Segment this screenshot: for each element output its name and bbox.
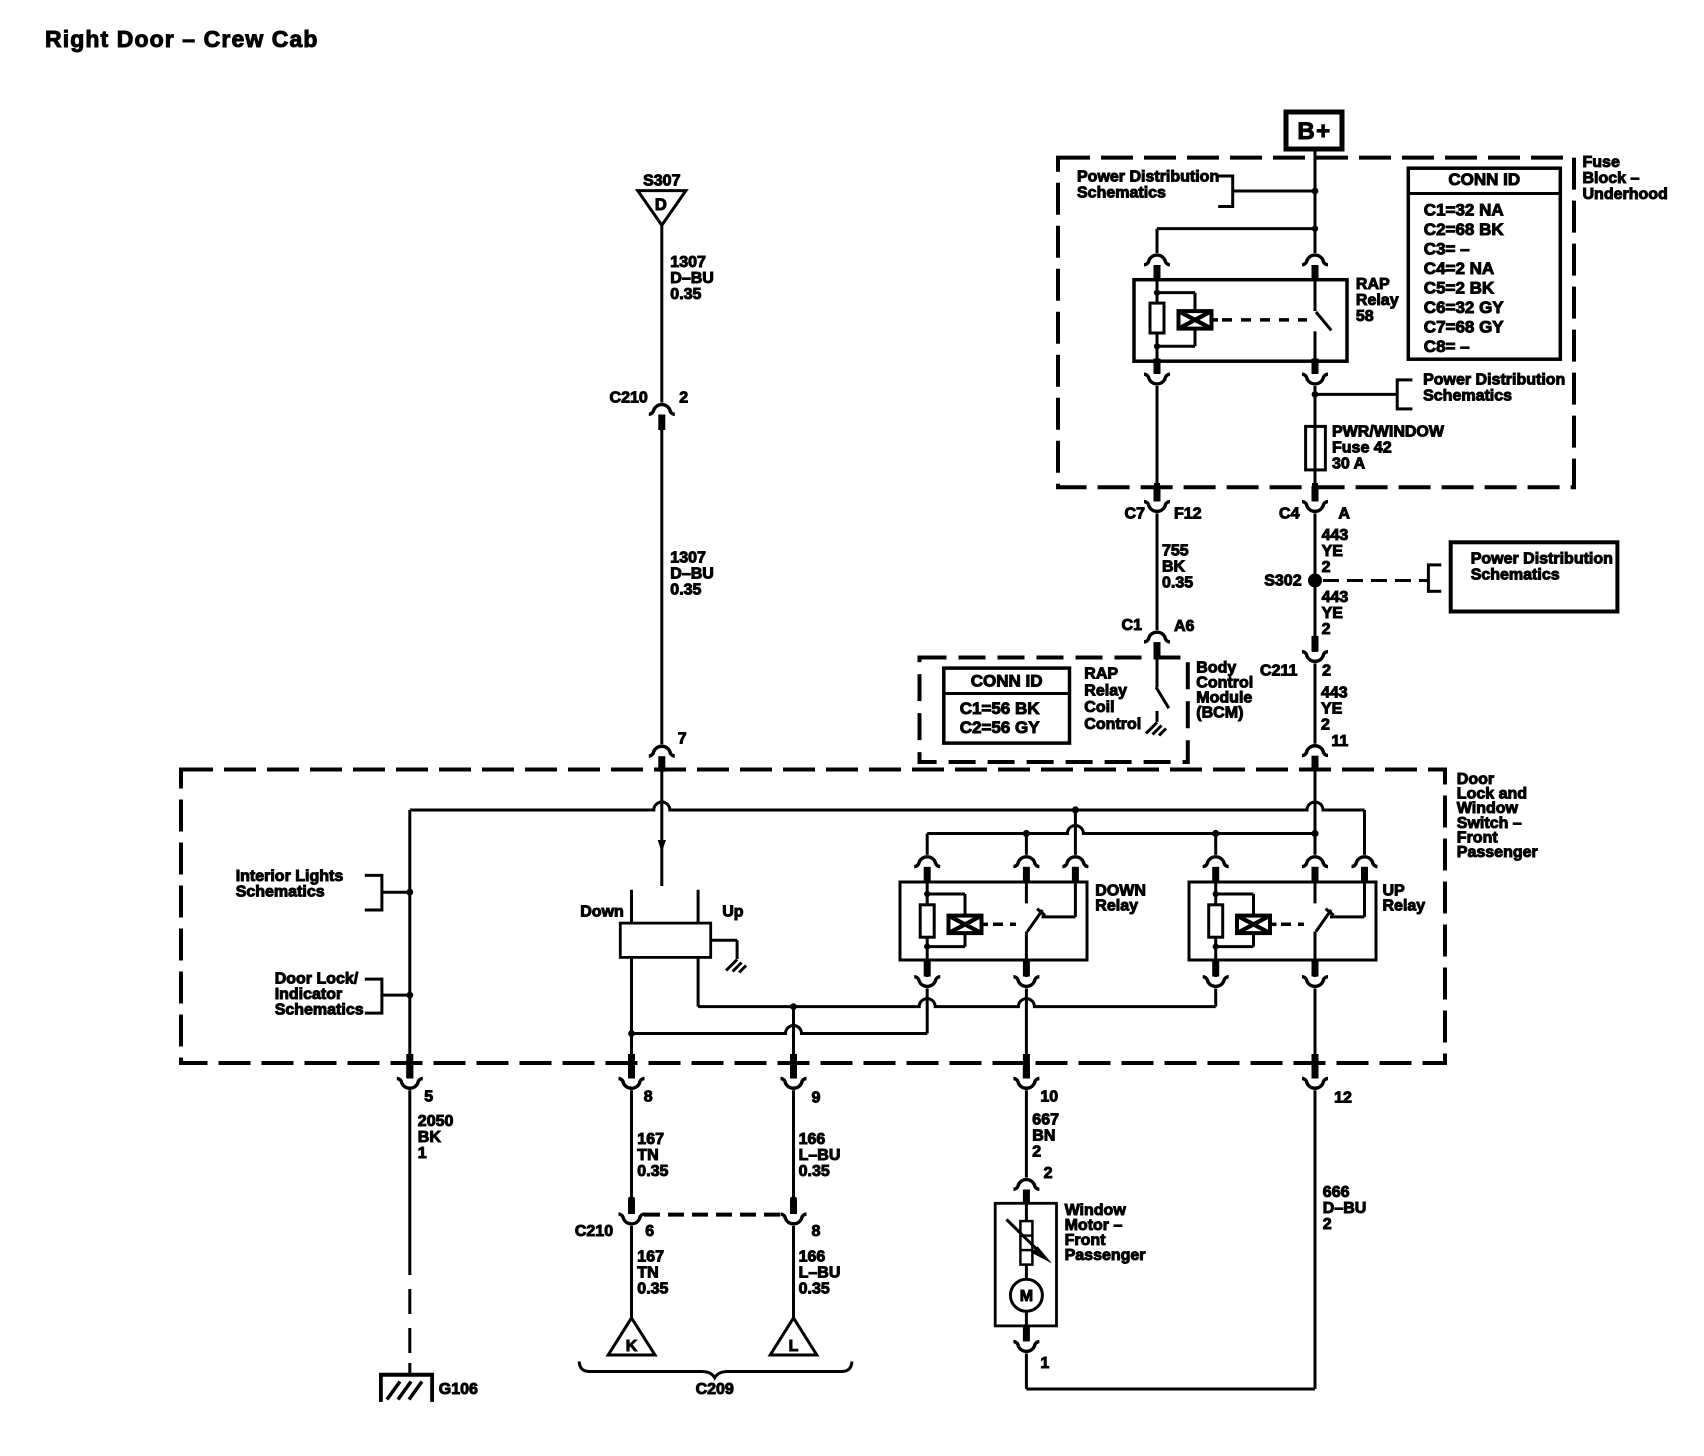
- svg-text:BN: BN: [1032, 1128, 1055, 1145]
- svg-text:TN: TN: [637, 1147, 658, 1164]
- svg-text:2: 2: [1322, 559, 1331, 576]
- svg-text:58: 58: [1356, 308, 1374, 325]
- svg-text:Fuse 42: Fuse 42: [1332, 440, 1392, 457]
- svg-text:C1=56 BK: C1=56 BK: [960, 699, 1041, 718]
- svg-text:1: 1: [418, 1145, 427, 1162]
- svg-text:0.35: 0.35: [799, 1281, 830, 1298]
- svg-text:166: 166: [799, 1131, 826, 1148]
- svg-text:2: 2: [1322, 621, 1331, 638]
- svg-text:Interior Lights: Interior Lights: [236, 868, 344, 885]
- svg-text:C7=68 GY: C7=68 GY: [1424, 318, 1505, 337]
- svg-text:1307: 1307: [670, 550, 706, 567]
- svg-text:D: D: [655, 196, 667, 214]
- svg-text:C209: C209: [696, 1381, 734, 1398]
- svg-text:Door Lock/: Door Lock/: [275, 971, 359, 988]
- svg-text:D–BU: D–BU: [670, 270, 714, 287]
- svg-text:6: 6: [645, 1223, 654, 1240]
- svg-text:Relay: Relay: [1356, 292, 1399, 309]
- svg-text:0.35: 0.35: [670, 286, 701, 303]
- svg-text:667: 667: [1032, 1112, 1059, 1129]
- svg-text:443: 443: [1321, 685, 1348, 702]
- svg-text:5: 5: [424, 1089, 433, 1106]
- svg-text:7: 7: [678, 730, 687, 747]
- svg-text:C211: C211: [1260, 663, 1297, 680]
- svg-text:YE: YE: [1322, 605, 1344, 622]
- svg-text:Schematics: Schematics: [275, 1002, 364, 1019]
- svg-text:C1: C1: [1122, 617, 1143, 634]
- svg-text:755: 755: [1162, 543, 1189, 560]
- svg-text:2: 2: [1032, 1144, 1041, 1161]
- svg-text:9: 9: [812, 1090, 821, 1107]
- svg-text:PWR/WINDOW: PWR/WINDOW: [1332, 424, 1445, 441]
- svg-text:2: 2: [679, 389, 688, 406]
- svg-text:Indicator: Indicator: [275, 986, 343, 1003]
- svg-text:Down: Down: [580, 903, 624, 920]
- svg-text:G106: G106: [439, 1381, 478, 1398]
- svg-text:0.35: 0.35: [637, 1281, 668, 1298]
- svg-text:0.35: 0.35: [1162, 575, 1193, 592]
- svg-text:A: A: [1338, 506, 1350, 523]
- svg-text:(BCM): (BCM): [1196, 704, 1243, 721]
- svg-text:167: 167: [637, 1249, 664, 1266]
- svg-text:Power Distribution: Power Distribution: [1471, 550, 1613, 567]
- svg-text:Schematics: Schematics: [1077, 185, 1166, 202]
- svg-text:Relay: Relay: [1095, 898, 1138, 915]
- svg-text:443: 443: [1322, 527, 1349, 544]
- svg-text:Schematics: Schematics: [1423, 388, 1512, 405]
- svg-text:L–BU: L–BU: [799, 1147, 841, 1164]
- svg-text:C210: C210: [610, 389, 648, 406]
- svg-text:Up: Up: [722, 903, 744, 920]
- svg-text:12: 12: [1334, 1090, 1352, 1107]
- svg-text:TN: TN: [637, 1265, 658, 1282]
- svg-text:C4: C4: [1279, 506, 1300, 523]
- svg-text:0.35: 0.35: [637, 1163, 668, 1180]
- svg-text:Relay: Relay: [1084, 682, 1127, 699]
- svg-text:YE: YE: [1322, 543, 1344, 560]
- svg-text:Schematics: Schematics: [1471, 566, 1560, 583]
- svg-text:C8= –: C8= –: [1424, 337, 1470, 356]
- svg-text:Power Distribution: Power Distribution: [1077, 169, 1219, 186]
- svg-text:2: 2: [1321, 717, 1330, 734]
- svg-text:S307: S307: [643, 173, 680, 190]
- svg-text:B+: B+: [1297, 118, 1331, 145]
- svg-text:S302: S302: [1264, 573, 1301, 590]
- svg-text:A6: A6: [1174, 618, 1195, 635]
- svg-text:RAP: RAP: [1084, 666, 1118, 683]
- svg-text:C7: C7: [1125, 506, 1146, 523]
- svg-text:C2=68 BK: C2=68 BK: [1424, 220, 1505, 239]
- svg-text:C2=56 GY: C2=56 GY: [960, 718, 1041, 737]
- svg-text:L–BU: L–BU: [799, 1265, 841, 1282]
- svg-text:Passenger: Passenger: [1065, 1247, 1146, 1264]
- svg-text:Power Distribution: Power Distribution: [1423, 372, 1565, 389]
- svg-text:666: 666: [1323, 1184, 1350, 1201]
- svg-text:167: 167: [637, 1131, 664, 1148]
- svg-text:2: 2: [1322, 663, 1331, 680]
- svg-text:C4=2 NA: C4=2 NA: [1424, 259, 1494, 278]
- svg-text:1: 1: [1040, 1355, 1049, 1372]
- svg-text:CONN ID: CONN ID: [1448, 170, 1520, 189]
- svg-text:RAP: RAP: [1356, 276, 1390, 293]
- svg-text:BK: BK: [418, 1129, 442, 1146]
- svg-text:8: 8: [644, 1089, 653, 1106]
- svg-text:2: 2: [1323, 1216, 1332, 1233]
- svg-text:BK: BK: [1162, 559, 1186, 576]
- svg-text:YE: YE: [1321, 701, 1343, 718]
- svg-text:0.35: 0.35: [799, 1163, 830, 1180]
- svg-text:C6=32 GY: C6=32 GY: [1424, 298, 1505, 317]
- svg-text:30 A: 30 A: [1332, 456, 1366, 473]
- svg-text:C3= –: C3= –: [1424, 240, 1470, 259]
- svg-text:L: L: [789, 1338, 799, 1355]
- svg-text:K: K: [626, 1338, 638, 1355]
- svg-text:Passenger: Passenger: [1457, 844, 1538, 861]
- svg-text:C1=32 NA: C1=32 NA: [1424, 201, 1504, 220]
- svg-text:1307: 1307: [670, 254, 706, 271]
- svg-text:C210: C210: [575, 1223, 613, 1240]
- svg-text:8: 8: [812, 1223, 821, 1240]
- svg-text:Relay: Relay: [1383, 898, 1426, 915]
- svg-text:Right Door – Crew Cab: Right Door – Crew Cab: [45, 26, 319, 52]
- svg-text:F12: F12: [1174, 506, 1202, 523]
- svg-text:Schematics: Schematics: [236, 884, 325, 901]
- svg-text:0.35: 0.35: [670, 582, 701, 599]
- svg-text:Control: Control: [1084, 716, 1141, 733]
- svg-text:M: M: [1020, 1288, 1033, 1305]
- svg-text:D–BU: D–BU: [670, 566, 714, 583]
- svg-text:11: 11: [1331, 733, 1348, 750]
- svg-text:Block –: Block –: [1583, 170, 1640, 187]
- svg-text:166: 166: [799, 1249, 826, 1266]
- svg-text:C5=2 BK: C5=2 BK: [1424, 279, 1495, 298]
- svg-text:Underhood: Underhood: [1583, 186, 1668, 203]
- svg-text:10: 10: [1040, 1089, 1058, 1106]
- svg-text:2050: 2050: [418, 1113, 454, 1130]
- svg-text:Coil: Coil: [1084, 699, 1114, 716]
- svg-text:443: 443: [1322, 589, 1349, 606]
- svg-text:2: 2: [1044, 1165, 1053, 1182]
- svg-text:D–BU: D–BU: [1323, 1200, 1367, 1217]
- svg-text:Fuse: Fuse: [1583, 154, 1620, 171]
- svg-text:CONN ID: CONN ID: [971, 671, 1043, 690]
